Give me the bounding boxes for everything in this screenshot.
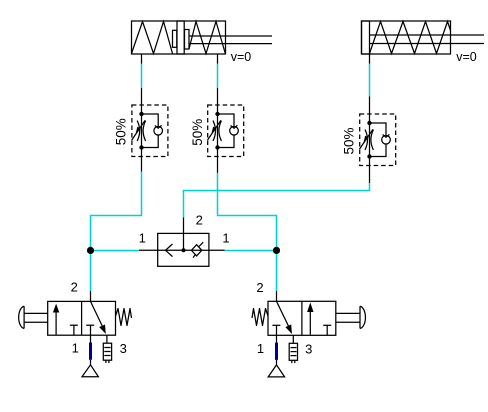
svg-text:1: 1 <box>72 340 79 355</box>
svg-text:3: 3 <box>305 342 312 357</box>
svg-text:1: 1 <box>222 231 229 246</box>
wire W1c node A to shuttle valve left port 1 <box>91 250 140 252</box>
svg-text:2: 2 <box>196 212 203 227</box>
svg-text:1: 1 <box>139 231 146 246</box>
node at shuttle valve centre <box>182 248 186 252</box>
svg-text:2: 2 <box>256 280 263 295</box>
wire W1a cylinder1 left port to flow valve V1 <box>141 64 143 88</box>
node A junction dot <box>87 247 94 254</box>
wire W1b flow valve V1 to node A <box>91 172 142 251</box>
svg-text:3: 3 <box>120 341 127 356</box>
svg-text:50%: 50% <box>342 127 357 154</box>
black stub V5 port 2 <box>276 291 278 301</box>
svg-text:v=0: v=0 <box>456 50 477 64</box>
wire W2c shuttle valve right port 1 to node B <box>225 250 277 252</box>
svg-text:v=0: v=0 <box>231 50 252 64</box>
flow control valve V1 <box>132 88 168 172</box>
svg-text:50%: 50% <box>190 119 205 146</box>
svg-text:2: 2 <box>71 279 78 294</box>
3/2-way valve V4 (pushbutton left, spring right) <box>19 301 132 376</box>
wire W2d node B down to valve V5 port 2 <box>276 251 278 292</box>
wire W3a cylinder2 port to flow valve V3 <box>369 64 371 97</box>
cylinder A1 double-ended with springs both sides <box>132 21 273 64</box>
flow control valve V3 <box>360 96 396 183</box>
node B junction dot <box>273 247 280 254</box>
black stub V4 port 2 <box>90 291 92 301</box>
wire W2a cylinder1 right port to flow valve V2 <box>217 64 219 88</box>
3/2-way valve V5 (spring left, pushbutton right) <box>252 301 365 377</box>
shuttle valve V6 <box>139 218 225 267</box>
cylinder A2 single-acting spring return <box>362 21 485 64</box>
svg-text:50%: 50% <box>113 118 128 145</box>
svg-text:1: 1 <box>257 341 264 356</box>
navy pressure segment on V4 port 1 <box>89 343 92 360</box>
wire W1d node A down to valve V4 port 2 <box>90 251 92 292</box>
wire W3b flow valve V3 to shuttle valve top port 2 <box>184 183 370 218</box>
wire W2b flow valve V2 to node B <box>218 173 277 251</box>
flow control valve V2 <box>208 88 244 173</box>
navy pressure segment on V5 port 1 <box>275 343 278 360</box>
